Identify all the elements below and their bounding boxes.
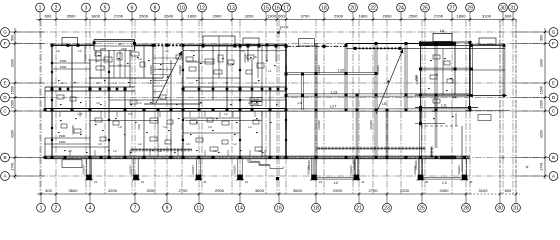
svg-text:G: G bbox=[552, 30, 556, 35]
svg-text:11: 11 bbox=[196, 206, 201, 212]
svg-text:600: 600 bbox=[45, 13, 52, 18]
svg-text:L2: L2 bbox=[78, 49, 82, 53]
svg-text:2700: 2700 bbox=[434, 13, 444, 18]
svg-text:2: 2 bbox=[55, 5, 58, 11]
svg-text:3300: 3300 bbox=[540, 59, 544, 67]
svg-text:L6: L6 bbox=[165, 49, 169, 53]
svg-text:29: 29 bbox=[467, 5, 473, 11]
svg-text:1500: 1500 bbox=[540, 86, 544, 94]
svg-text:1500: 1500 bbox=[540, 100, 544, 108]
svg-text:16: 16 bbox=[276, 206, 282, 212]
svg-text:240x240: 240x240 bbox=[192, 165, 195, 175]
svg-text:1500: 1500 bbox=[59, 140, 66, 144]
svg-text:L1: L1 bbox=[96, 59, 100, 63]
svg-text:L1: L1 bbox=[158, 67, 162, 71]
svg-text:2700: 2700 bbox=[114, 13, 124, 18]
svg-text:240x300: 240x300 bbox=[377, 65, 380, 75]
svg-text:26: 26 bbox=[422, 5, 428, 11]
svg-text:3500: 3500 bbox=[67, 13, 77, 18]
svg-text:2600: 2600 bbox=[253, 98, 259, 102]
svg-text:L9: L9 bbox=[118, 125, 122, 129]
svg-text:15: 15 bbox=[263, 5, 269, 11]
svg-text:9: 9 bbox=[166, 206, 169, 212]
svg-text:L5: L5 bbox=[382, 101, 387, 106]
svg-text:27: 27 bbox=[449, 5, 455, 11]
svg-text:240x240: 240x240 bbox=[234, 165, 237, 175]
svg-text:1800: 1800 bbox=[359, 13, 369, 18]
svg-text:1740: 1740 bbox=[10, 163, 14, 171]
svg-text:L1: L1 bbox=[432, 109, 436, 113]
svg-text:1500: 1500 bbox=[60, 59, 67, 63]
svg-text:31: 31 bbox=[510, 5, 516, 11]
svg-text:L2: L2 bbox=[233, 142, 237, 146]
svg-text:4: 4 bbox=[89, 206, 92, 212]
svg-text:L3: L3 bbox=[442, 181, 446, 185]
svg-text:500: 500 bbox=[10, 35, 14, 41]
svg-text:3600: 3600 bbox=[293, 188, 303, 193]
svg-text:L7: L7 bbox=[208, 81, 212, 85]
svg-text:L2: L2 bbox=[258, 149, 262, 153]
svg-text:13: 13 bbox=[229, 5, 235, 11]
svg-text:L13: L13 bbox=[331, 91, 337, 95]
svg-text:L8: L8 bbox=[148, 81, 152, 85]
svg-text:2500: 2500 bbox=[409, 13, 419, 18]
svg-text:240x300: 240x300 bbox=[353, 160, 356, 170]
svg-text:240x300: 240x300 bbox=[308, 160, 311, 170]
svg-text:L2: L2 bbox=[158, 149, 162, 153]
svg-text:10: 10 bbox=[179, 5, 185, 11]
svg-text:L10: L10 bbox=[338, 68, 345, 73]
svg-text:1800: 1800 bbox=[121, 47, 127, 51]
svg-text:L3: L3 bbox=[191, 49, 195, 53]
svg-text:7: 7 bbox=[134, 206, 137, 212]
svg-text:L1: L1 bbox=[60, 81, 64, 85]
svg-text:2900: 2900 bbox=[215, 188, 225, 193]
svg-text:1800: 1800 bbox=[188, 13, 198, 18]
svg-text:16: 16 bbox=[274, 5, 280, 11]
svg-text:L6: L6 bbox=[440, 28, 445, 33]
svg-text:E: E bbox=[3, 81, 6, 86]
svg-text:2600: 2600 bbox=[383, 13, 393, 18]
svg-text:1500: 1500 bbox=[10, 100, 14, 108]
svg-text:L6: L6 bbox=[186, 142, 190, 146]
svg-text:24: 24 bbox=[398, 5, 404, 11]
svg-text:1500: 1500 bbox=[60, 65, 67, 69]
svg-text:L11: L11 bbox=[441, 104, 447, 108]
svg-text:240x240: 240x240 bbox=[458, 165, 461, 175]
svg-text:1800: 1800 bbox=[91, 13, 101, 18]
svg-text:L17: L17 bbox=[330, 104, 337, 109]
svg-text:1500: 1500 bbox=[59, 134, 66, 138]
svg-text:240x300: 240x300 bbox=[285, 65, 288, 75]
svg-text:17: 17 bbox=[283, 5, 289, 11]
svg-text:L12: L12 bbox=[78, 112, 83, 116]
svg-text:5: 5 bbox=[104, 5, 107, 11]
svg-text:3600: 3600 bbox=[69, 188, 79, 193]
svg-text:1300: 1300 bbox=[267, 13, 277, 18]
svg-text:3600: 3600 bbox=[255, 188, 265, 193]
svg-text:L8: L8 bbox=[98, 142, 102, 146]
svg-text:L2: L2 bbox=[118, 63, 122, 67]
svg-text:L3: L3 bbox=[213, 149, 217, 153]
svg-text:L4: L4 bbox=[248, 125, 252, 129]
svg-text:8: 8 bbox=[154, 5, 157, 11]
svg-text:4200: 4200 bbox=[10, 130, 14, 138]
svg-text:2900: 2900 bbox=[213, 13, 223, 18]
svg-text:1740: 1740 bbox=[540, 163, 544, 171]
svg-text:240x300: 240x300 bbox=[415, 160, 418, 170]
svg-text:GL: GL bbox=[118, 42, 122, 46]
svg-text:3200: 3200 bbox=[147, 188, 157, 193]
svg-text:1800: 1800 bbox=[457, 13, 467, 18]
svg-text:28: 28 bbox=[463, 206, 469, 212]
svg-text:2: 2 bbox=[55, 206, 58, 212]
svg-text:2700: 2700 bbox=[369, 188, 379, 193]
svg-text:B: B bbox=[3, 155, 6, 160]
svg-text:L9: L9 bbox=[208, 125, 212, 129]
svg-text:3: 3 bbox=[85, 5, 88, 11]
svg-text:240x300: 240x300 bbox=[416, 75, 419, 85]
svg-text:23: 23 bbox=[384, 206, 390, 212]
svg-text:L2: L2 bbox=[138, 101, 142, 105]
svg-text:12: 12 bbox=[199, 5, 205, 11]
svg-text:L6: L6 bbox=[96, 101, 100, 105]
svg-text:2900: 2900 bbox=[334, 13, 344, 18]
svg-text:4200: 4200 bbox=[108, 188, 118, 193]
svg-text:L1: L1 bbox=[268, 69, 272, 73]
svg-text:1500: 1500 bbox=[10, 86, 14, 94]
svg-text:30: 30 bbox=[497, 206, 503, 212]
svg-text:240x240: 240x240 bbox=[83, 165, 86, 175]
svg-text:L13: L13 bbox=[298, 101, 303, 105]
svg-text:600: 600 bbox=[505, 13, 512, 18]
svg-text:D4: D4 bbox=[452, 96, 457, 100]
svg-text:F: F bbox=[4, 41, 7, 46]
svg-text:L5: L5 bbox=[128, 112, 132, 116]
svg-text:240x300: 240x300 bbox=[244, 53, 247, 63]
svg-text:31: 31 bbox=[513, 206, 519, 212]
svg-text:2700: 2700 bbox=[179, 188, 189, 193]
svg-text:L4: L4 bbox=[163, 125, 167, 129]
svg-text:L5: L5 bbox=[56, 49, 60, 53]
svg-text:6: 6 bbox=[131, 5, 134, 11]
svg-text:600: 600 bbox=[505, 188, 512, 193]
svg-text:2700: 2700 bbox=[138, 124, 141, 130]
svg-text:240x300: 240x300 bbox=[150, 65, 153, 75]
svg-text:L2: L2 bbox=[68, 149, 72, 153]
svg-text:25: 25 bbox=[419, 206, 425, 212]
svg-text:3200: 3200 bbox=[245, 13, 255, 18]
svg-text:L5: L5 bbox=[253, 55, 257, 59]
svg-text:240x300: 240x300 bbox=[179, 65, 182, 75]
svg-text:L9 240: L9 240 bbox=[280, 25, 289, 29]
svg-text:18: 18 bbox=[313, 206, 319, 212]
svg-text:14: 14 bbox=[237, 206, 243, 212]
svg-text:30: 30 bbox=[500, 5, 506, 11]
svg-text:2200: 2200 bbox=[400, 188, 410, 193]
svg-text:3100: 3100 bbox=[479, 188, 489, 193]
svg-text:L2: L2 bbox=[224, 112, 228, 116]
svg-text:240x300: 240x300 bbox=[318, 120, 321, 130]
svg-text:2900: 2900 bbox=[333, 188, 343, 193]
svg-text:240x300: 240x300 bbox=[318, 65, 321, 75]
svg-text:18: 18 bbox=[321, 5, 327, 11]
svg-text:3700: 3700 bbox=[301, 13, 311, 18]
svg-text:L3: L3 bbox=[248, 101, 252, 105]
svg-text:4300: 4300 bbox=[440, 188, 450, 193]
svg-text:L4: L4 bbox=[113, 81, 117, 85]
svg-text:500: 500 bbox=[540, 35, 544, 41]
svg-text:400: 400 bbox=[45, 188, 52, 193]
svg-text:L2: L2 bbox=[138, 142, 142, 146]
svg-text:240x300: 240x300 bbox=[370, 120, 373, 130]
svg-text:E: E bbox=[552, 81, 555, 86]
svg-text:L3: L3 bbox=[138, 57, 142, 61]
svg-text:240x300: 240x300 bbox=[72, 125, 75, 135]
svg-text:F: F bbox=[552, 41, 555, 46]
svg-text:240x240: 240x240 bbox=[130, 165, 133, 175]
svg-text:L2: L2 bbox=[334, 181, 338, 185]
svg-text:2600: 2600 bbox=[164, 13, 174, 18]
svg-text:L2: L2 bbox=[241, 49, 245, 53]
svg-text:L9: L9 bbox=[253, 81, 257, 85]
svg-text:3300: 3300 bbox=[10, 59, 14, 67]
svg-text:L4: L4 bbox=[193, 59, 197, 63]
svg-text:4200: 4200 bbox=[540, 130, 544, 138]
svg-text:1: 1 bbox=[39, 5, 42, 11]
svg-text:21: 21 bbox=[356, 206, 362, 212]
svg-text:L6: L6 bbox=[198, 101, 202, 105]
svg-text:240x300: 240x300 bbox=[285, 120, 288, 130]
svg-text:22: 22 bbox=[370, 5, 376, 11]
svg-text:2500: 2500 bbox=[139, 13, 149, 18]
svg-text:3100: 3100 bbox=[482, 13, 492, 18]
svg-text:20: 20 bbox=[350, 5, 356, 11]
svg-text:600: 600 bbox=[278, 13, 285, 18]
svg-text:L2: L2 bbox=[228, 63, 232, 67]
svg-text:L7: L7 bbox=[96, 81, 100, 85]
svg-text:L3: L3 bbox=[113, 149, 117, 153]
svg-text:B: B bbox=[552, 155, 555, 160]
svg-text:G: G bbox=[3, 30, 7, 35]
svg-text:1: 1 bbox=[40, 206, 43, 212]
